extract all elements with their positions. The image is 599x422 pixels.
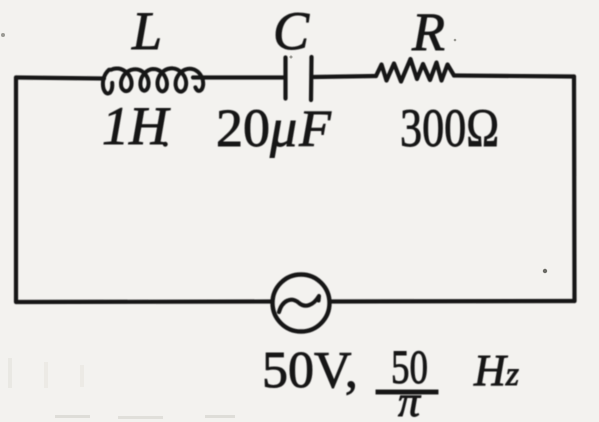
AC source sine symbol bbox=[279, 296, 319, 312]
scan speckles bbox=[1, 33, 5, 37]
resistor R bbox=[376, 59, 454, 82]
fraction bar bbox=[376, 390, 438, 394]
svg-text:.: . bbox=[161, 117, 170, 154]
svg-text:50V,: 50V, bbox=[262, 342, 358, 399]
svg-text:L: L bbox=[131, 1, 162, 61]
svg-text:Hz: Hz bbox=[473, 346, 519, 395]
inductor L bbox=[103, 68, 203, 93]
wire left vertical bbox=[14, 78, 18, 303]
svg-text:300Ω: 300Ω bbox=[400, 98, 499, 158]
wire bottom-left segment bbox=[17, 299, 273, 304]
svg-text:20μF: 20μF bbox=[216, 98, 332, 158]
capacitor C right plate bbox=[309, 57, 314, 100]
wire right vertical bbox=[572, 77, 577, 302]
wire top-left segment bbox=[16, 78, 104, 79]
svg-text:R: R bbox=[411, 2, 445, 62]
wire capacitor-to-resistor bbox=[314, 76, 376, 77]
capacitor C left plate bbox=[283, 58, 287, 99]
svg-text:C: C bbox=[273, 1, 310, 61]
wire inductor-to-capacitor bbox=[193, 75, 284, 79]
svg-text:π: π bbox=[398, 377, 422, 422]
AC source circle bbox=[273, 275, 330, 332]
wire top-right segment bbox=[454, 76, 574, 77]
wire bottom-right segment bbox=[330, 299, 575, 304]
